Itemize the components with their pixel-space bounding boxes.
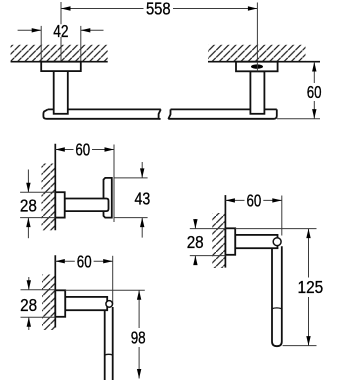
bracket flange right (236, 62, 278, 72)
svg-text:125: 125 (298, 277, 324, 297)
center line right bracket lower part (256, 62, 258, 72)
holder arm middle (272, 246, 282, 346)
holder arm bottom (105, 307, 113, 380)
svg-text:43: 43 (135, 188, 151, 208)
hook wall plate (55, 192, 64, 217)
towel bar right segment (168, 109, 276, 119)
hook flange front (104, 178, 112, 218)
pivot knob bottom (106, 301, 113, 308)
dimension 60 hook (55, 140, 114, 223)
dimension 28 hook (20, 170, 55, 239)
svg-text:60: 60 (75, 140, 90, 160)
wall hatch top-right (208, 45, 320, 62)
bracket stem right (250, 71, 264, 114)
dimension 60 top right (307, 62, 322, 119)
holder wall plate bottom (55, 290, 65, 317)
svg-text:60: 60 (307, 82, 322, 102)
bar bottom extension line (277, 118, 320, 120)
wall middle right (212, 195, 225, 268)
holder wall plate middle (225, 228, 235, 255)
wall hatch top-left (11, 45, 108, 62)
towel bar left segment (43, 109, 160, 119)
dimension 28 bottom (20, 277, 55, 330)
svg-text:558: 558 (146, 0, 171, 18)
svg-text:98: 98 (131, 328, 146, 348)
dimension 60 middle (225, 191, 282, 236)
svg-text:60: 60 (77, 251, 92, 271)
holder stem middle (235, 235, 277, 248)
dimension 43 hook (114, 162, 150, 238)
dimension 60 bottom (55, 251, 112, 304)
svg-text:28: 28 (20, 196, 37, 216)
pivot knob middle (273, 238, 281, 246)
dimension 125 (235, 229, 323, 346)
dimension 558 (61, 0, 257, 71)
wall hook (42, 144, 56, 231)
set screw oval (251, 64, 263, 68)
svg-text:42: 42 (53, 21, 68, 41)
hook stem (65, 199, 109, 212)
svg-text:28: 28 (187, 232, 204, 252)
holder stem bottom (65, 297, 107, 310)
bracket flange left (41, 62, 81, 71)
svg-text:28: 28 (20, 295, 37, 315)
bracket stem left (54, 71, 68, 114)
dimension 42 (18, 21, 104, 62)
dimension 28 middle (187, 219, 226, 265)
dimension 98 (65, 290, 146, 378)
wall bottom left (42, 255, 55, 330)
svg-text:60: 60 (247, 191, 262, 211)
